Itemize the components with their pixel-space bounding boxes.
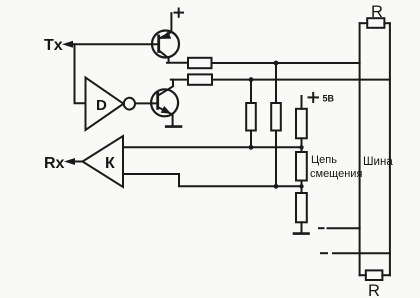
svg-text:5В: 5В (323, 94, 335, 104)
junction dot R6 bottom (274, 184, 279, 189)
wire dashed stub to left bus wire (319, 227, 360, 229)
resistor R3 (horizontal, from Q1 collector) (167, 58, 212, 68)
svg-text:D: D (96, 97, 107, 114)
resistor R5 (vertical, line B to Rx upper line) (246, 80, 256, 148)
bus wire left (Шина) (359, 23, 361, 275)
label Шина (363, 156, 393, 168)
wire Tx to inverter D input (75, 44, 86, 103)
bus wire right (Шина) (389, 23, 391, 275)
resistor R2 (bus termination, bottom) (360, 270, 390, 298)
wire inverter output to Q2 base (135, 102, 158, 104)
svg-text:смещения: смещения (310, 168, 362, 180)
ground under bias chain (294, 232, 309, 235)
power + supply for Q1 (175, 9, 184, 17)
power +5V label (309, 93, 335, 104)
node Tx label (44, 37, 63, 54)
comparator U2 "K" (receiver) (83, 136, 124, 187)
svg-text:Tx: Tx (44, 37, 63, 54)
svg-text:Цепь: Цепь (311, 154, 337, 166)
transistor Q1 (PNP, emitter to +) (152, 13, 179, 62)
svg-text:Шина: Шина (363, 156, 393, 168)
junction dot on line B at x=251 (249, 77, 254, 82)
junction dot bias node 1 (299, 145, 303, 149)
resistor R7 (bias chain top, from +5V) (296, 96, 307, 152)
label bias circuit (Цепь смещения) (310, 154, 362, 180)
resistor R9 (bias chain bottom) (296, 193, 307, 233)
resistor R8 (bias chain middle) (296, 152, 307, 193)
wire dashed stub to right bus wire (321, 252, 390, 254)
junction dot on line A at x=276 (274, 61, 279, 66)
wire line B: R4 to right bus wire (212, 79, 390, 81)
transistor Q2 (NPN, emitter grounded) (151, 80, 178, 127)
svg-text:R: R (371, 3, 383, 21)
wire Tx input with arrowhead (62, 41, 159, 48)
resistor R6 (vertical, line A to Rx lower line) (271, 63, 281, 186)
svg-text:К: К (105, 155, 115, 172)
svg-text:Rx: Rx (44, 155, 65, 172)
inverter U1 "D" (86, 78, 136, 131)
wire K lower input with step to bias node 2 (123, 174, 301, 186)
wire K upper input to bias node 1 (123, 146, 301, 148)
junction dot R5 bottom (249, 145, 254, 150)
svg-text:R: R (368, 282, 380, 298)
wire line A: R3 to left bus wire (212, 62, 360, 64)
node Rx label (44, 155, 65, 172)
wire Rx output with arrowhead (64, 158, 83, 165)
resistor R4 (horizontal, from Q2 collector) (171, 74, 212, 84)
resistor R1 (bus termination, top) (360, 3, 390, 28)
ground under Q2 emitter (166, 125, 181, 128)
junction dot bias node 2 (299, 184, 303, 188)
